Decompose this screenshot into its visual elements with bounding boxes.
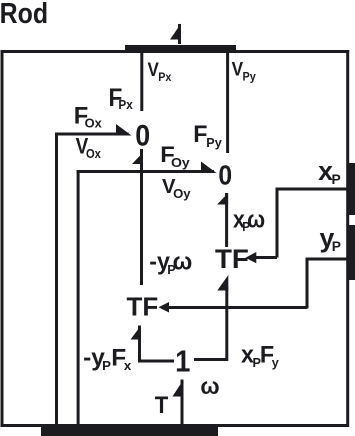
svg-text:Py: Py [243, 71, 257, 84]
svg-text:0: 0 [218, 159, 232, 191]
svg-text:Px: Px [118, 98, 132, 113]
svg-text:Py: Py [206, 135, 222, 150]
svg-text:Oy: Oy [171, 155, 190, 169]
svg-text:F: F [193, 121, 207, 147]
svg-text:x: x [124, 358, 132, 373]
svg-text:TF: TF [126, 292, 158, 322]
svg-text:TF: TF [215, 243, 249, 274]
svg-text:Ox: Ox [85, 116, 103, 131]
svg-text:y: y [272, 355, 280, 370]
svg-text:P: P [332, 238, 341, 254]
svg-text:T: T [155, 391, 169, 418]
svg-text:ω: ω [173, 249, 193, 275]
svg-text:1: 1 [175, 344, 190, 379]
svg-text:Rod: Rod [0, 0, 48, 29]
svg-text:0: 0 [135, 119, 150, 153]
svg-text:Px: Px [158, 71, 172, 84]
svg-text:ω: ω [200, 373, 219, 399]
svg-text:Ox: Ox [86, 146, 101, 161]
svg-text:ω: ω [247, 205, 265, 233]
svg-text:P: P [332, 171, 341, 187]
svg-text:Oy: Oy [173, 186, 191, 201]
svg-text:V: V [232, 59, 243, 80]
svg-text:V: V [147, 59, 158, 80]
svg-text:P: P [102, 358, 111, 373]
